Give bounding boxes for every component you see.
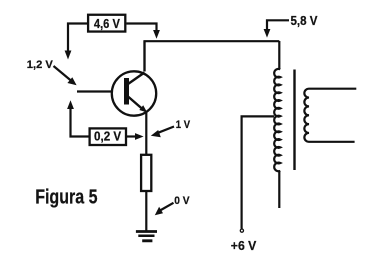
wire left of 4,6V box down-arrow [65,24,87,60]
svg-text:0 V: 0 V [174,195,190,207]
transformer T1 secondary coil with leads [304,89,356,142]
voltage box 4,6 V [88,15,125,32]
node 1 V [151,119,191,137]
svg-text:0,2 V: 0,2 V [94,129,122,144]
wire emitter vertical [145,112,147,155]
transformer T1 primary coil [274,41,280,208]
transformer core [293,70,295,171]
voltage box 0,2 V [90,128,126,145]
node 5,8 V [264,13,318,38]
arrow right of 0,2V box [127,133,144,140]
wire collector to transformer primary top [145,41,280,71]
wire resistor to ground [145,192,147,231]
svg-text:4,6 V: 4,6 V [94,16,120,31]
terminal +6 V [231,229,257,253]
wire collector vertical [143,41,145,72]
wire base [77,90,113,92]
node 0 V [155,195,190,216]
resistor R1 [141,155,151,191]
svg-text:Figura 5: Figura 5 [35,186,97,209]
wire right of 4,6V box down-arrow [127,24,160,39]
svg-text:1 V: 1 V [176,119,191,131]
svg-text:5,8 V: 5,8 V [291,13,318,28]
svg-text:1,2 V: 1,2 V [27,59,54,71]
ground [136,232,157,241]
transistor Q1 [112,71,156,115]
wire +6V tap [242,116,274,228]
svg-text:+6 V: +6 V [231,239,257,253]
node 1,2 V [27,59,77,85]
wire left of 0,2V box up-arrow [67,100,88,136]
